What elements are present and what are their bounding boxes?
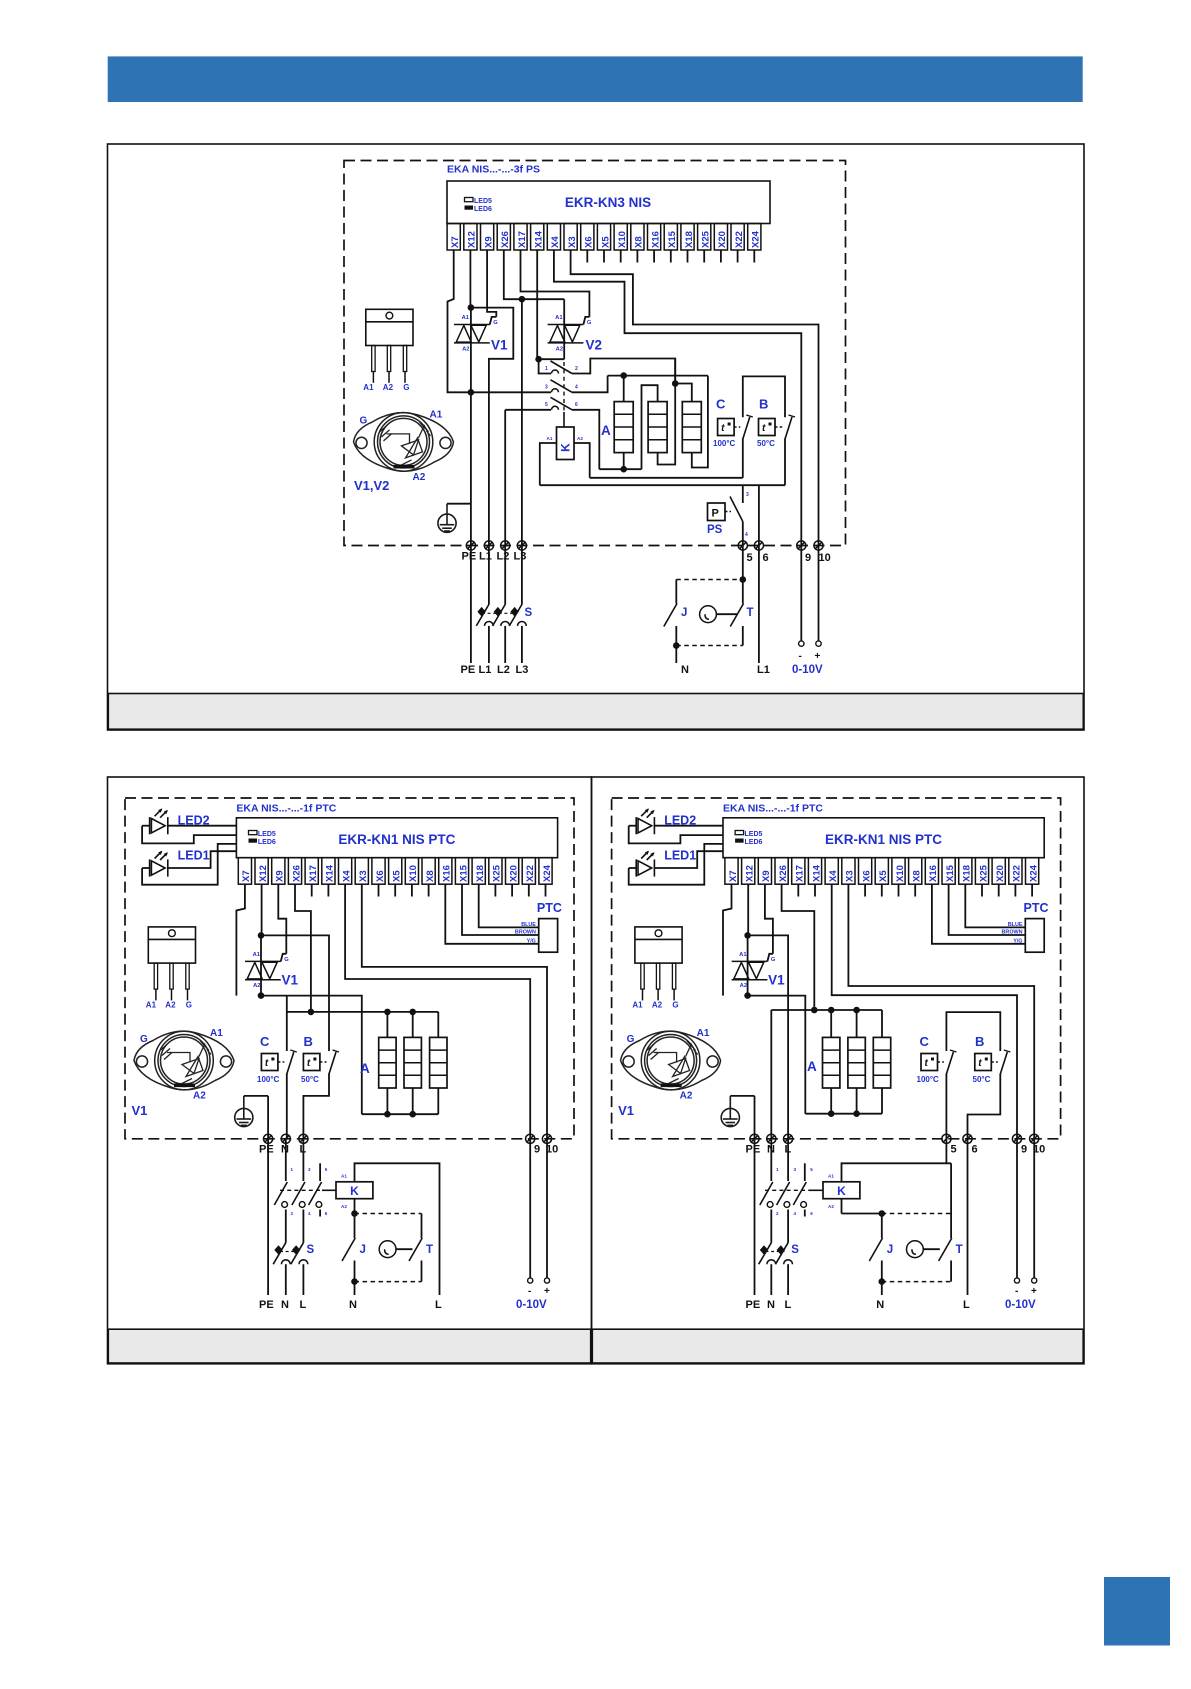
figure 3 border [592,777,1085,1364]
svg-text:9: 9 [1021,1144,1027,1156]
terminal X8 right fig3 [909,858,922,885]
svg-text:G: G [403,383,409,392]
svg-text:2: 2 [776,1211,779,1216]
wire PE down left fig2 [267,1139,269,1295]
svg-text:LED2: LED2 [664,814,696,828]
svg-text:L3: L3 [514,551,527,563]
svg-text:V1: V1 [768,973,785,988]
svg-text:A2: A2 [253,983,260,989]
svg-text:N: N [767,1299,775,1311]
svg-text:T: T [956,1244,963,1256]
svg-text:A1: A1 [739,952,747,958]
svg-text:X22: X22 [734,231,745,248]
frame terminal L left fig2 [299,1134,308,1143]
svg-text:t: t [978,1058,982,1069]
frame terminal 9 left fig2 [526,1134,535,1143]
terminal X15 [664,224,677,251]
svg-text:X6: X6 [584,236,595,248]
svg-text:A2: A2 [556,346,563,352]
terminal X8 [631,224,644,251]
terminal X25 right fig3 [975,858,988,885]
svg-text:B: B [975,1034,984,1049]
svg-text:X18: X18 [475,865,486,882]
figure 3 caption bar [592,1329,1083,1363]
svg-text:PE: PE [259,1299,274,1311]
triac V1 right fig3 [732,961,768,979]
heater top bus left fig2 [287,1011,439,1013]
svg-text:K: K [559,443,573,452]
wire cutout C riser left fig2 [286,996,288,1051]
svg-text:6: 6 [575,402,578,408]
terminal X24 [748,224,761,251]
svg-text:5: 5 [545,402,548,408]
wire V1 A2 line to heater bottom left fig2 [261,996,362,1115]
frame terminal 10 right fig3 [1030,1134,1039,1143]
svg-text:J: J [681,607,687,619]
terminal X18 [681,224,694,251]
wire V1 through-line A1-A2 [470,308,472,393]
terminal X10 right fig3 [892,858,905,885]
wire PE down right fig3 [754,1139,756,1295]
svg-text:C: C [260,1034,270,1049]
svg-text:A2: A2 [341,1204,347,1209]
node X12/V1 junction left fig2 [258,932,265,939]
svg-text:A1: A1 [363,383,374,392]
svg-text:A2: A2 [740,983,747,989]
heater element A 2 left fig2 [404,1037,421,1088]
svg-text:50°C: 50°C [973,1075,991,1084]
svg-text:X4: X4 [828,870,839,882]
triac V2 [548,325,584,343]
terminal X18 left fig2 [472,858,485,885]
svg-text:BLUE: BLUE [1008,922,1023,928]
wire coil A1 - terminal 6 - cutout B line [540,484,785,486]
figure 2 caption bar [108,1329,590,1363]
contactor K pole 1 right fig3 [770,1139,772,1181]
heater element A 3 right fig3 [873,1037,890,1088]
svg-text:t: t [925,1058,929,1069]
frame terminal 9 [797,541,806,550]
wire X14 to V2 A2 and contactor pole 1 [536,250,538,359]
terminal X14 left fig2 [322,858,335,885]
terminal X7 left fig2 [238,858,251,885]
switch J right fig3 [881,1214,883,1239]
LED5 indicator left fig2 [249,831,258,835]
LED1 right fig3 [636,852,654,877]
wire X3 to terminal 10 [571,250,819,545]
svg-text:t: t [721,423,725,434]
terminal X15 left fig2 [455,858,468,885]
terminal X9 left fig2 [272,858,285,885]
svg-text:A2: A2 [193,1091,206,1102]
wire V1 through-line right fig3 [747,935,749,995]
svg-text:1: 1 [776,1167,779,1172]
wire K coil A2 to thermal line [574,443,590,478]
svg-text:100°C: 100°C [257,1075,280,1084]
frame terminal L1 [484,541,493,550]
svg-text:V1: V1 [282,973,299,988]
svg-text:50°C: 50°C [301,1075,319,1084]
svg-text:A: A [807,1059,817,1074]
svg-text:LED1: LED1 [178,849,210,863]
wire X26 to heater bus left fig2 [295,884,311,1012]
terminal X4 right fig3 [825,858,838,885]
svg-text:PS: PS [707,524,723,536]
terminal X3 right fig3 [842,858,855,885]
thermostat enclosure dashed bottom [676,645,743,647]
wire terminal 5 to thermostat [742,546,744,580]
terminal X5 [597,224,610,251]
terminal X8 left fig2 [422,858,435,885]
terminal X14 [531,224,544,251]
svg-text:X26: X26 [778,865,789,882]
LED2 right fig3 [636,809,654,834]
terminal X26 left fig2 [288,858,301,885]
dashed enclosure frame EKA NIS 3f PS [344,161,846,546]
terminal X20 right fig3 [992,858,1005,885]
svg-text:X7: X7 [728,870,739,882]
wire X9 to V1 gate [487,250,496,317]
pressure switch PS [742,485,744,503]
svg-text:X15: X15 [458,864,469,882]
terminal X12 [464,224,477,251]
wire terminal 6 to L right fig3 [967,1139,969,1295]
svg-text:T: T [747,607,754,619]
frame terminal 10 [814,541,823,550]
terminal X12 right fig3 [742,858,755,885]
svg-text:G: G [771,957,776,963]
svg-text:0-10V: 0-10V [516,1299,547,1311]
svg-text:L1: L1 [479,664,492,676]
wire L3 phase riser [521,299,523,545]
svg-text:1: 1 [545,366,548,372]
svg-text:A2: A2 [652,1000,663,1009]
svg-text:3: 3 [308,1167,311,1172]
wire PE riser left fig2 [267,1096,269,1139]
main switch S pole L right fig3 [776,1243,789,1265]
svg-text:2: 2 [575,366,578,372]
svg-text:LED6: LED6 [474,206,492,213]
heater element A 2 right fig3 [848,1037,865,1088]
svg-text:A: A [601,423,611,438]
svg-text:-: - [1015,1286,1018,1297]
node V1 A2 junction [468,389,475,396]
main switch S pole L left fig2 [291,1243,304,1265]
svg-text:X25: X25 [978,864,989,882]
LED6 indicator right fig3 [735,839,744,843]
svg-text:5: 5 [325,1167,328,1172]
wire K coil to L left fig2 [355,1163,440,1295]
thermal cutout C 100C [718,419,735,436]
thermal cutout B 50C [759,419,776,436]
terminal X5 left fig2 [389,858,402,885]
svg-text:X15: X15 [667,230,678,248]
heater element A a [614,402,633,453]
svg-text:BROWN: BROWN [515,930,536,936]
frame terminal PE [466,541,475,550]
svg-text:N: N [281,1299,289,1311]
wire C to N terminal left fig2 [286,1074,288,1139]
wire C to terminal 5 right fig3 [945,1074,947,1139]
svg-text:L2: L2 [497,664,510,676]
terminal X3 left fig2 [355,858,368,885]
svg-text:5: 5 [747,552,753,564]
terminal X25 [698,224,711,251]
svg-text:LED5: LED5 [258,831,276,838]
signal lamp right fig3 [907,1241,924,1258]
svg-text:PE: PE [259,1144,274,1156]
wire K coil A2 down right fig3 [841,1199,843,1214]
svg-text:X10: X10 [617,231,628,248]
wire X12 jog to L terminal right fig3 [748,935,789,1138]
svg-text:EKA NIS...-...-3f PS: EKA NIS...-...-3f PS [447,164,540,176]
svg-text:LED5: LED5 [474,198,492,205]
svg-text:G: G [360,415,368,426]
switch T right fig3 [950,1163,952,1238]
frame terminal PE left fig2 [264,1134,273,1143]
svg-text:C: C [716,397,726,412]
svg-text:N: N [349,1299,357,1311]
heater element A 3 left fig2 [430,1037,447,1088]
LED6 indicator [465,206,474,210]
svg-text:A2: A2 [413,472,426,483]
svg-text:100°C: 100°C [917,1075,940,1084]
svg-text:L1: L1 [479,551,492,563]
svg-text:X5: X5 [392,870,403,882]
contactor K linkage right fig3 [765,1189,809,1191]
contactor K linkage left fig2 [280,1189,322,1191]
package TO-3 triac outline V1,V2 [354,413,454,472]
svg-text:A2: A2 [462,346,469,352]
svg-text:G: G [627,1034,635,1045]
svg-text:EKR-KN3 NIS: EKR-KN3 NIS [565,195,651,210]
svg-text:PTC: PTC [1024,901,1049,915]
thermostat dashed top left fig2 [355,1213,422,1215]
terminal X18 right fig3 [959,858,972,885]
heater bus pole1 [658,359,676,465]
svg-text:X4: X4 [550,236,561,248]
svg-text:1: 1 [291,1167,294,1172]
svg-text:X9: X9 [275,870,286,882]
svg-text:V1: V1 [618,1103,634,1118]
svg-text:X17: X17 [308,865,319,882]
frame terminal 6 right fig3 [963,1134,972,1143]
svg-text:T: T [426,1244,433,1256]
terminal X7 [447,224,460,251]
LED5 indicator right fig3 [735,831,744,835]
svg-text:A2: A2 [680,1091,693,1102]
svg-text:N: N [876,1299,884,1311]
node X12/V1/L1 junction [468,304,475,311]
svg-text:LED2: LED2 [178,814,210,828]
contactor K pole 2 left fig2 [302,1139,304,1181]
terminal X7 right fig3 [725,858,738,885]
signal lamp left fig2 [379,1241,396,1258]
controller EKR-KN3 NIS box [447,181,770,224]
svg-text:A1: A1 [341,1174,347,1179]
heater element A c [682,402,701,453]
svg-text:A1: A1 [210,1028,223,1039]
svg-text:G: G [186,1000,192,1009]
wire V1 A2 to PE terminal [470,392,472,545]
svg-text:X20: X20 [995,865,1006,882]
svg-text:A2: A2 [828,1204,834,1209]
dashed enclosure frame EKA NIS 1f PTC right fig3 [612,798,1061,1139]
signal lamp [700,606,717,623]
LED1 wire right fig3 [629,867,637,869]
svg-text:X14: X14 [811,864,822,882]
package TO-3 V1 right fig3 [621,1031,721,1090]
svg-text:X17: X17 [795,865,806,882]
svg-text:Y/G: Y/G [1013,938,1022,944]
terminal X24 left fig2 [539,858,552,885]
terminal X20 left fig2 [506,858,519,885]
thermal cutout B 50C left fig2 [303,1054,320,1071]
svg-text:PE: PE [746,1299,761,1311]
terminal X17 [514,224,527,251]
svg-text:PE: PE [461,664,476,676]
svg-text:L: L [785,1299,792,1311]
svg-text:+: + [544,1286,550,1297]
switch S linkage right fig3 [766,1251,785,1253]
svg-text:X5: X5 [878,870,889,882]
svg-text:B: B [759,397,768,412]
svg-text:C: C [920,1034,930,1049]
frame terminal L2 [501,541,510,550]
wire X26 to heater bus right fig3 [782,884,815,1010]
svg-text:A1: A1 [555,315,563,321]
wire X16 to PTC yg right fig3 [932,884,1025,944]
svg-text:S: S [791,1244,799,1256]
frame terminal N left fig2 [281,1134,290,1143]
main switch S pole L1 [488,546,490,605]
package TO-220 right fig3 [635,927,682,963]
heater bus pole3 bottom [599,468,641,470]
svg-text:S: S [307,1244,315,1256]
svg-text:X3: X3 [567,236,578,248]
svg-text:3: 3 [545,385,548,391]
contactor K pole 3 [552,406,559,409]
svg-text:X10: X10 [895,865,906,882]
analog 0-10V left fig2 [529,1139,531,1278]
wire terminal 6 to L1 [758,546,760,664]
svg-text:S: S [525,607,533,619]
svg-text:4: 4 [745,532,748,538]
wire L2 phase riser [504,410,506,545]
earth branch right fig3 [730,1095,754,1097]
svg-text:X3: X3 [358,870,369,882]
wire X7 to contactor pole 2 [448,250,552,392]
svg-text:EKR-KN1 NIS PTC: EKR-KN1 NIS PTC [825,832,942,847]
svg-text:6: 6 [763,552,769,564]
contactor K coil right fig3 [823,1182,860,1199]
svg-text:10: 10 [819,552,831,564]
svg-text:X6: X6 [861,870,872,882]
wire X18 to PTC blue left fig2 [479,884,539,927]
wire X12 to V1 A1 right fig3 [747,884,749,935]
earth symbol right fig3 [721,1096,739,1127]
controller EKR-KN1 NIS PTC box right fig3 [723,818,1044,858]
wire L1 phase jog to V1 A1 [471,308,513,545]
contactor K pole 3 stub right fig3 [804,1163,806,1181]
thermostat enclosure dashed top [676,579,743,581]
wire X26 to V2 A1 [504,250,564,299]
LED2 wire left fig2 [142,825,150,827]
svg-text:X12: X12 [467,231,478,248]
svg-text:B: B [304,1034,313,1049]
terminal X10 [614,224,627,251]
terminal X17 left fig2 [305,858,318,885]
svg-text:-: - [799,651,802,662]
svg-text:X16: X16 [442,865,453,882]
svg-text:J: J [360,1244,366,1256]
svg-text:5: 5 [951,1144,957,1156]
package TO-3 V1 left fig2 [134,1031,234,1090]
svg-text:+: + [1031,1286,1037,1297]
heater bus pole2 top [608,375,708,377]
figure 2 border [108,777,592,1364]
svg-text:A1: A1 [828,1174,834,1179]
LED2 return wire left fig2 [142,826,236,844]
node X12/V1 junction right fig3 [744,932,751,939]
terminal X26 right fig3 [775,858,788,885]
wire X4 to terminal 9 right fig3 [832,884,1017,1139]
svg-text:G: G [284,957,289,963]
heater bottom bus right fig3 [805,1113,882,1115]
contactor K pole 2 right fig3 [787,1139,789,1181]
terminal X4 [547,224,560,251]
svg-text:X5: X5 [600,236,611,248]
svg-text:X24: X24 [1028,864,1039,882]
svg-text:X8: X8 [634,236,645,248]
svg-text:X12: X12 [745,865,756,882]
svg-text:L: L [300,1299,307,1311]
switch S linkage [482,612,517,614]
svg-text:LED5: LED5 [745,831,763,838]
svg-text:L1: L1 [757,664,770,676]
svg-text:A1: A1 [146,1000,157,1009]
svg-text:PE: PE [746,1144,761,1156]
svg-text:X3: X3 [845,870,856,882]
svg-text:X9: X9 [483,236,494,248]
thermostat dashed bottom left fig2 [355,1281,422,1283]
svg-text:0-10V: 0-10V [1005,1299,1036,1311]
LED1 left fig2 [150,852,168,877]
LED6 indicator left fig2 [249,839,258,843]
terminal X9 right fig3 [758,858,771,885]
terminal X16 left fig2 [439,858,452,885]
svg-text:BLUE: BLUE [521,922,536,928]
svg-text:X22: X22 [1012,865,1023,882]
terminal X16 [648,224,661,251]
svg-text:X12: X12 [258,865,269,882]
blue square mark [1104,1577,1170,1646]
main switch S pole L3 [521,546,523,605]
svg-text:5: 5 [810,1167,813,1172]
heater element A b [648,402,667,453]
svg-text:A2: A2 [577,436,583,441]
terminal X25 left fig2 [489,858,502,885]
terminal X26 [497,224,510,251]
svg-text:V1: V1 [491,338,508,353]
frame terminal 9 right fig3 [1012,1134,1021,1143]
svg-text:X4: X4 [341,870,352,882]
svg-text:+: + [815,651,821,662]
svg-text:PE: PE [462,551,477,563]
wire cutout top link [743,376,785,417]
svg-text:3: 3 [746,492,749,498]
terminal X16 right fig3 [925,858,938,885]
